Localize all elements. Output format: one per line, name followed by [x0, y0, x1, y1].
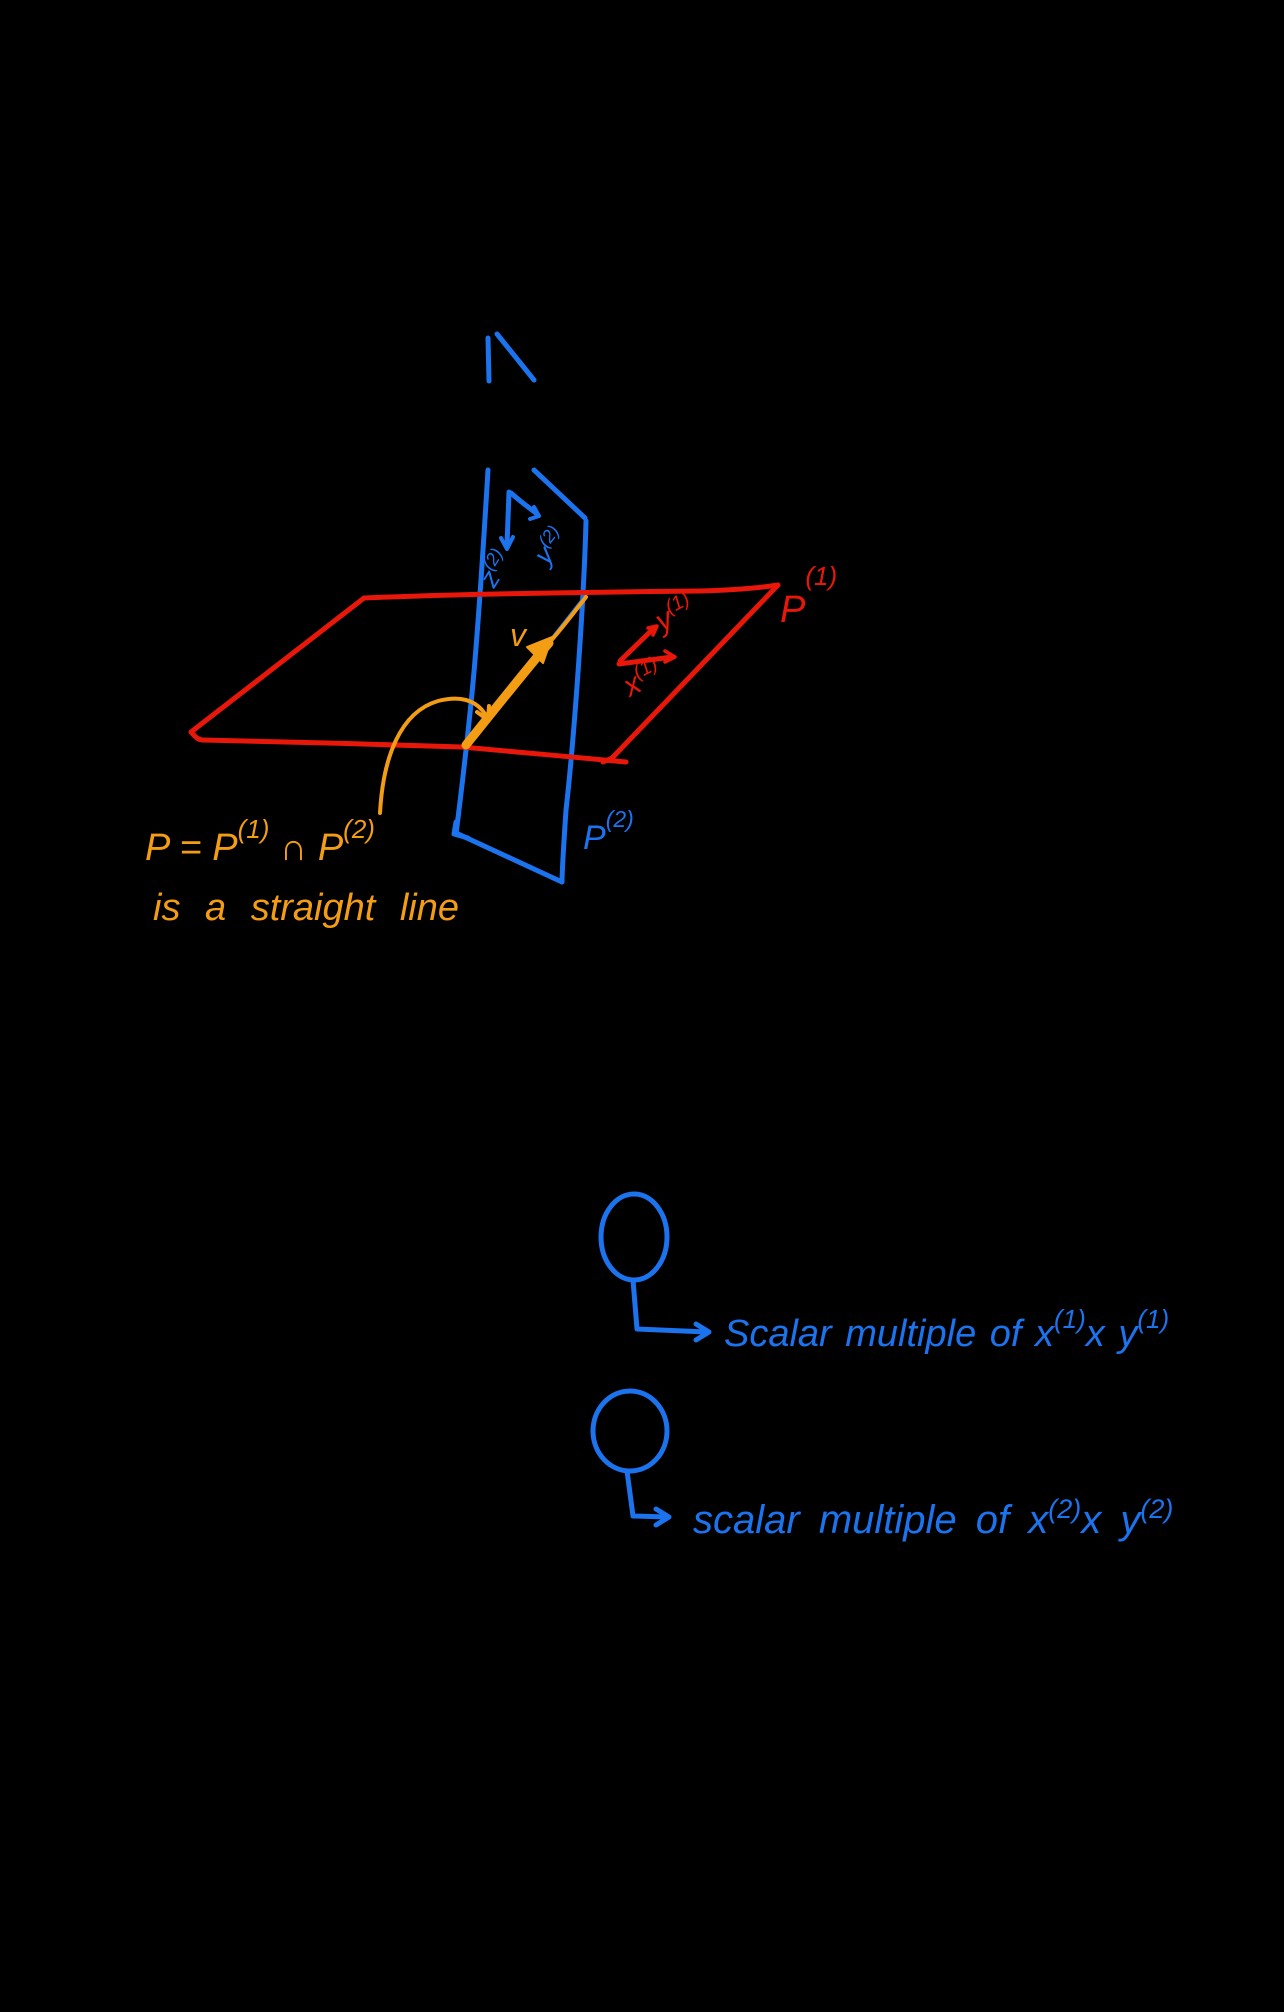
- blue plane left edge: [456, 470, 488, 834]
- v arrowhead: [527, 637, 552, 663]
- z(2) arrowhead: [501, 537, 513, 549]
- annotation 1 connector: [633, 1280, 707, 1332]
- x(1) arrowhead: [665, 651, 675, 662]
- blue plane right edge: [562, 521, 586, 882]
- red plane top edge: [364, 585, 778, 598]
- red label x(1): [615, 653, 669, 704]
- curved pointer arc: [380, 699, 488, 813]
- blue plane top-right diagonal edge: [534, 470, 585, 518]
- annotation 1 arrowhead: [696, 1324, 709, 1340]
- blue label z(2): [471, 545, 518, 593]
- blue plane bottom edge: [456, 833, 562, 882]
- x(1) arrow shaft: [619, 657, 672, 664]
- y(1) arrow shaft: [620, 627, 655, 661]
- arc arrowhead: [477, 706, 489, 720]
- red plane bottom edge: [191, 732, 626, 762]
- red plane left edge: [191, 598, 364, 732]
- z(2) arrow shaft: [507, 492, 509, 545]
- svg-text:is a straight line: is a straight line: [153, 887, 459, 929]
- orange group: [380, 597, 586, 813]
- annotation 2 connector: [627, 1471, 667, 1517]
- y(2) arrowhead: [530, 507, 539, 519]
- top arrow (up-left arrowhead above plane): [488, 334, 534, 381]
- y(1) arrowhead: [648, 626, 657, 635]
- svg-text:v: v: [510, 617, 528, 653]
- blue annotation 2: circle: [593, 1391, 667, 1471]
- bottom-left corner arrowhead: [454, 822, 468, 838]
- red plane right edge: [603, 585, 778, 762]
- blue annotation 1: circle: [601, 1194, 667, 1280]
- blue label y(2): [524, 521, 573, 571]
- annotation 2 arrowhead: [656, 1509, 669, 1525]
- red label y(1): [647, 588, 701, 639]
- blue plane P(2) group: [454, 334, 588, 882]
- intersection line (thin blue under orange): [466, 592, 588, 747]
- red plane P(1) group: [191, 585, 778, 762]
- y(2) arrow: [511, 493, 537, 514]
- v arrow shaft: [466, 643, 549, 745]
- svg-text:scalar multiple of x(2)x y(: scalar multiple of x(2)x y(2): [693, 1494, 1173, 1542]
